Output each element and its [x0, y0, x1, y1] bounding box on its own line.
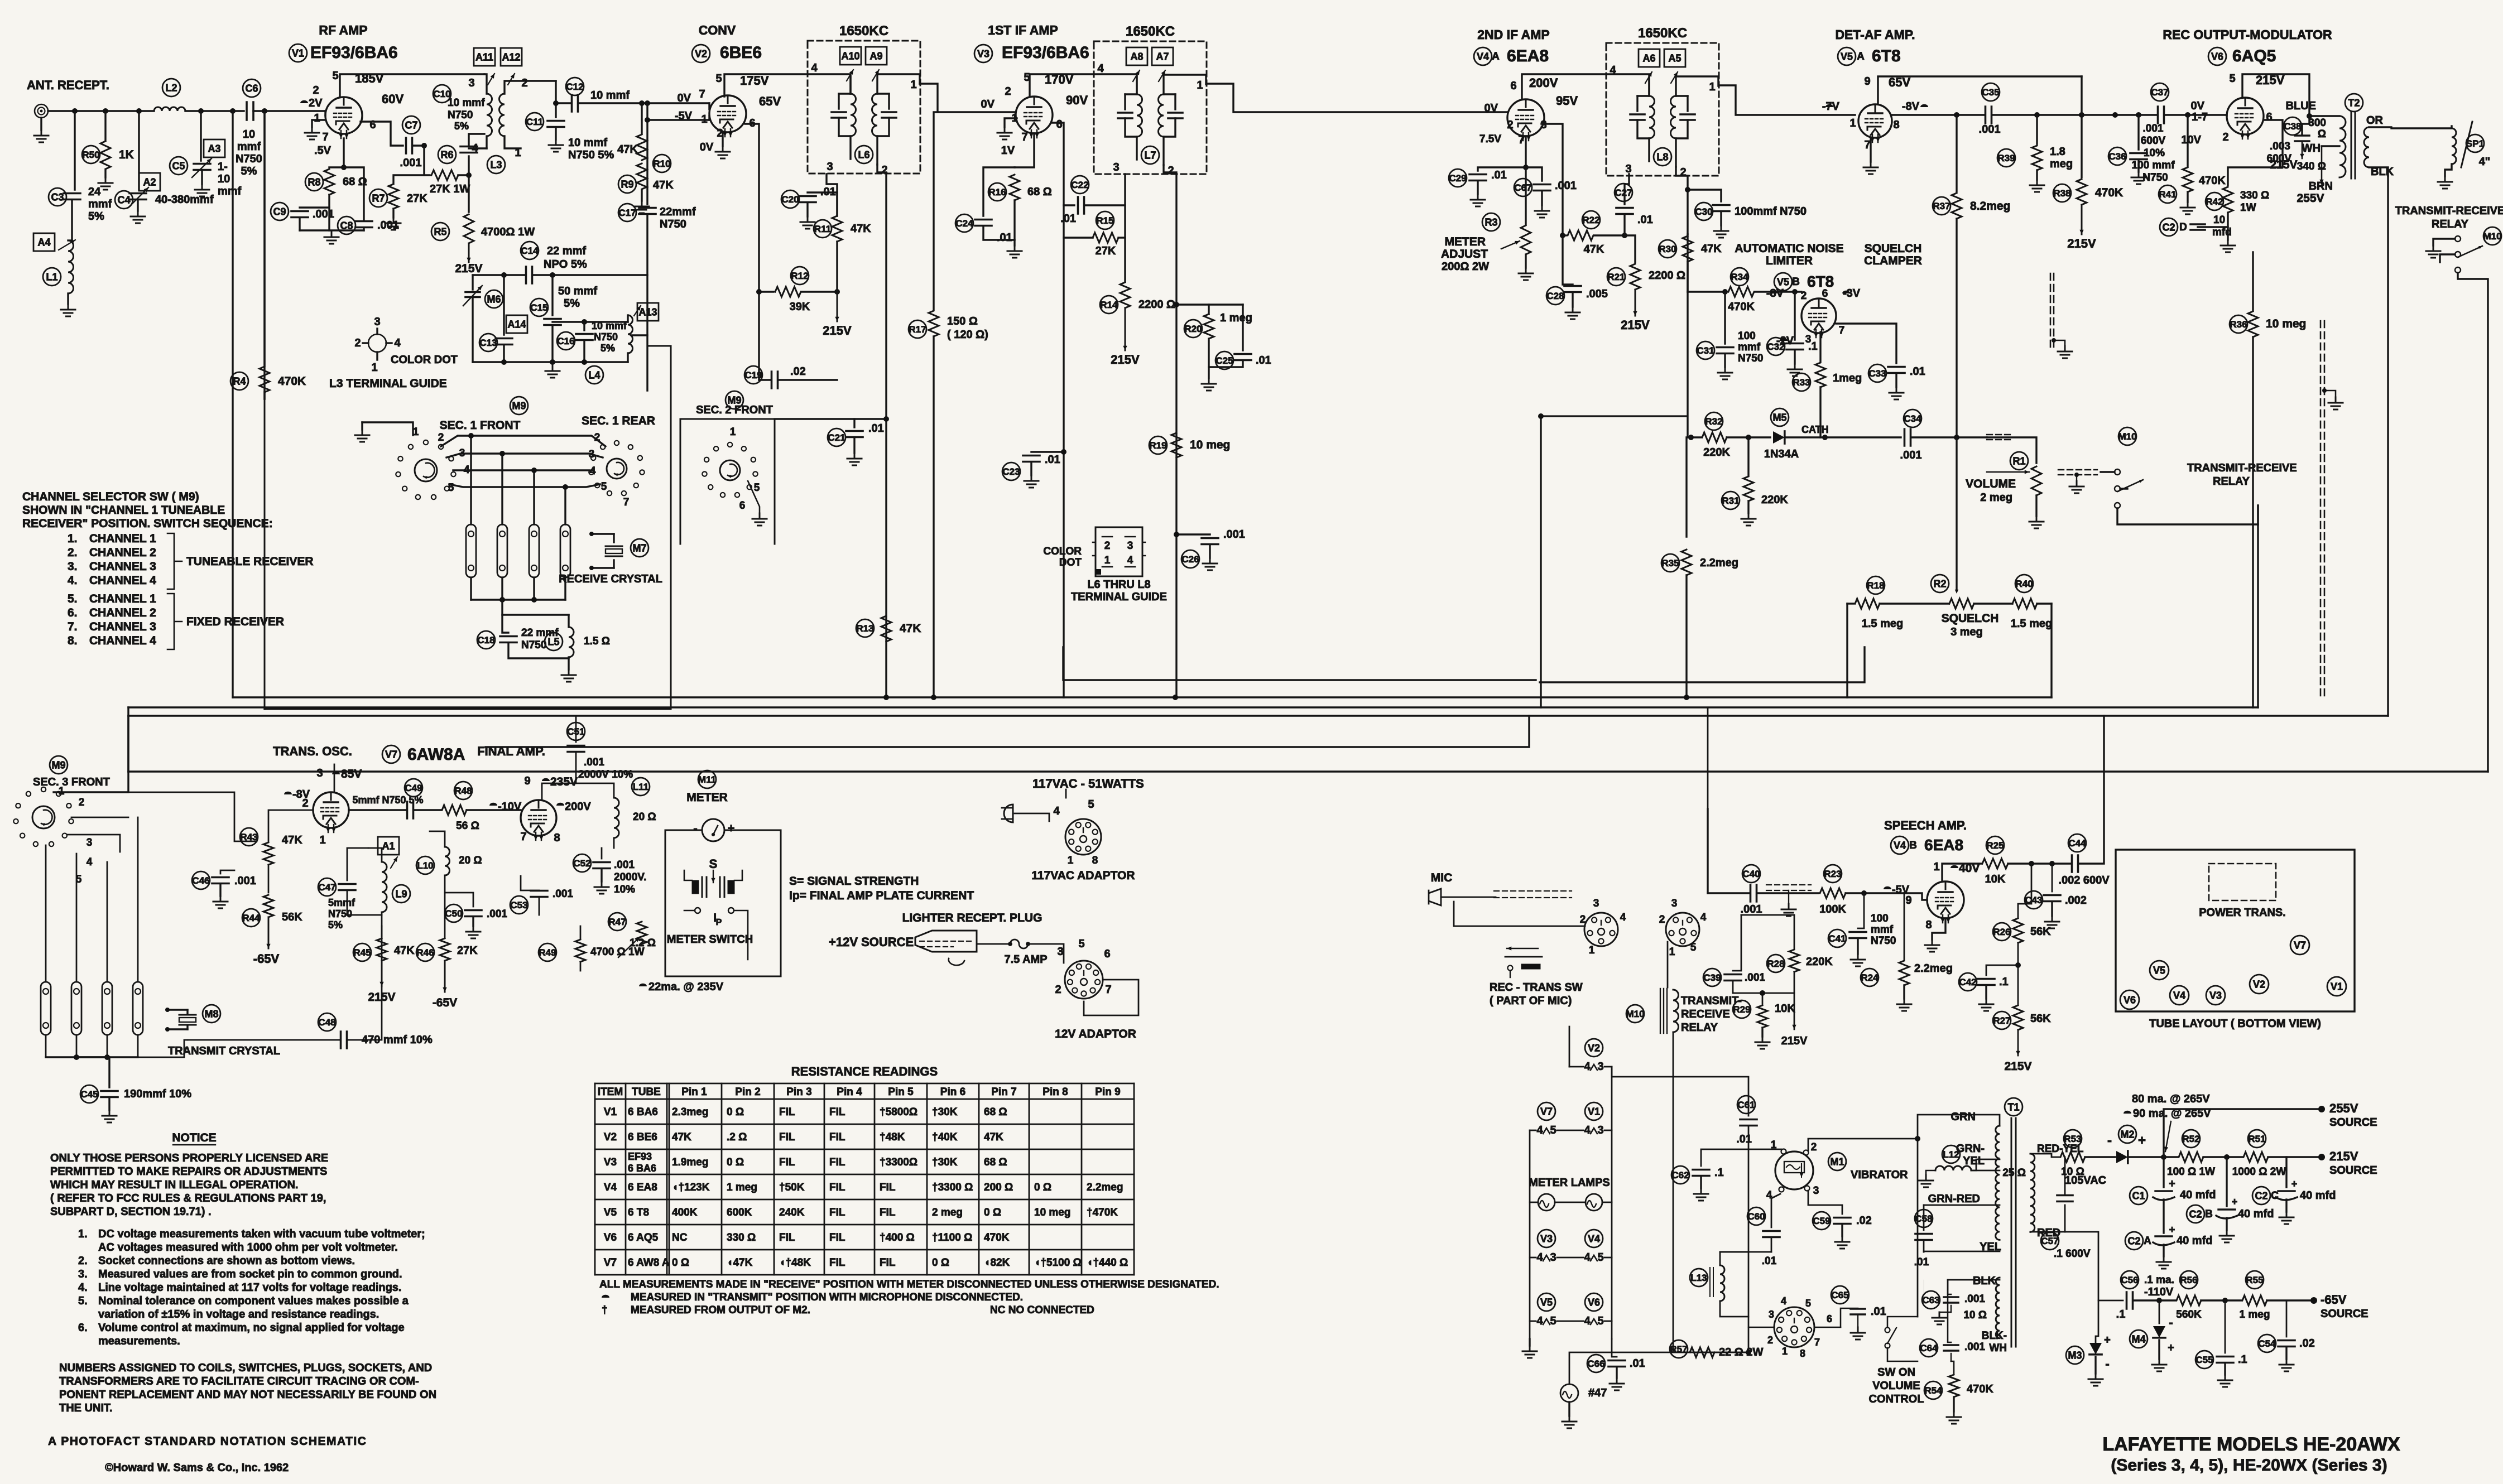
resistor R13: [881, 616, 891, 642]
svg-text:OR: OR: [2366, 114, 2384, 127]
ground (shield 2): [2324, 391, 2336, 397]
svg-text:C37: C37: [2151, 87, 2168, 98]
svg-text:2: 2: [2222, 131, 2228, 143]
svg-text:MIC: MIC: [1431, 871, 1453, 884]
svg-text:4: 4: [1584, 1061, 1591, 1073]
rectifier M3: [2096, 1300, 2098, 1343]
svg-text:R49: R49: [539, 947, 556, 958]
svg-text:DOT: DOT: [1059, 557, 1082, 568]
svg-text:4700Ω 1W: 4700Ω 1W: [481, 226, 535, 238]
sub box: [680, 419, 775, 544]
coil L12: [1935, 1166, 1971, 1170]
svg-text:2: 2: [521, 77, 527, 89]
svg-text:.01: .01: [1491, 169, 1507, 181]
svg-text:C21: C21: [828, 432, 845, 443]
svg-text:6.: 6.: [78, 1322, 88, 1334]
svg-text:560K: 560K: [2176, 1309, 2202, 1321]
svg-text:470K: 470K: [2199, 175, 2226, 187]
svg-text:ITEM: ITEM: [598, 1086, 623, 1098]
svg-text:235V: 235V: [550, 775, 578, 788]
svg-text:2000V 10%: 2000V 10%: [578, 769, 633, 780]
svg-text:117VAC - 51WATTS: 117VAC - 51WATTS: [1032, 777, 1144, 791]
svg-text:2: 2: [1168, 165, 1174, 177]
svg-text:85V: 85V: [341, 768, 362, 780]
svg-text:+: +: [2169, 1178, 2175, 1190]
capacitor (sec) IF2: [1164, 93, 1175, 95]
svg-text:1: 1: [1589, 945, 1595, 956]
svg-text:V5: V5: [1841, 51, 1853, 62]
svg-text:FIL: FIL: [880, 1207, 896, 1218]
ground (relay shield): [2076, 475, 2077, 481]
shield cap (volume): [1987, 434, 2014, 435]
svg-text:1.5 meg: 1.5 meg: [1862, 618, 1903, 630]
svg-text:4: 4: [1536, 1315, 1543, 1327]
svg-text:LAFAYETTE MODELS HE-20AWX: LAFAYETTE MODELS HE-20AWX: [2102, 1434, 2400, 1455]
wire IF1 pin3 to R11: [827, 174, 837, 216]
svg-text:FIXED RECEIVER: FIXED RECEIVER: [186, 615, 284, 628]
L6-L8 terminal guide: [1096, 527, 1142, 576]
tube V6 6AQ5: [2227, 98, 2264, 134]
svg-text:C16: C16: [557, 336, 574, 346]
svg-text:215V: 215V: [2004, 1060, 2031, 1073]
svg-text:R9: R9: [621, 179, 633, 190]
svg-text:†30K: †30K: [932, 1157, 958, 1168]
svg-text:150 Ω: 150 Ω: [947, 315, 978, 327]
wire vib socket bus: [1748, 1149, 1750, 1352]
svg-text:mfd: mfd: [2212, 227, 2232, 238]
svg-text:TUNEABLE RECEIVER: TUNEABLE RECEIVER: [186, 555, 314, 568]
IF transformer IF1 (1650KC): [808, 41, 920, 174]
svg-text:N750: N750: [1871, 935, 1896, 947]
svg-text:.01: .01: [997, 232, 1012, 244]
ground (V4B): [1932, 918, 1945, 939]
svg-text:1: 1: [1849, 117, 1856, 129]
svg-text:C31: C31: [1697, 345, 1714, 356]
svg-text:D: D: [2179, 221, 2187, 233]
svg-text:C50: C50: [445, 908, 462, 919]
svg-text:N750: N750: [1738, 353, 1763, 364]
svg-text:◖82K: ◖82K: [984, 1257, 1010, 1269]
svg-text:5: 5: [754, 482, 760, 494]
svg-text:1: 1: [730, 426, 736, 438]
svg-text:2 meg: 2 meg: [932, 1207, 963, 1218]
svg-text:C40: C40: [1742, 869, 1760, 879]
svg-text:SW ON: SW ON: [1877, 1366, 1915, 1379]
svg-text:ONLY THOSE PERSONS PROPERLY LI: ONLY THOSE PERSONS PROPERLY LICENSED ARE: [50, 1152, 328, 1164]
svg-text:RESISTANCE READINGS: RESISTANCE READINGS: [791, 1064, 938, 1078]
capacitor C29: [1478, 167, 1526, 171]
wire IF2 output: [1207, 84, 1487, 112]
svg-text:1.8: 1.8: [2050, 146, 2065, 158]
svg-text:ALL MEASUREMENTS MADE IN "RECE: ALL MEASUREMENTS MADE IN "RECEIVE" POSIT…: [599, 1279, 1219, 1290]
svg-text:47K: 47K: [672, 1131, 691, 1143]
ground (speaker): [2445, 164, 2452, 176]
wire crystals drop 4: [564, 487, 566, 524]
tube V5A label: [1838, 47, 1856, 65]
svg-text:10%: 10%: [614, 884, 635, 895]
svg-text:27K: 27K: [1096, 245, 1116, 257]
wire V7B plate: [542, 783, 614, 800]
svg-text:.01: .01: [1736, 1133, 1752, 1145]
crystal socket slot T3: [102, 982, 112, 1035]
svg-text:R45: R45: [353, 947, 371, 958]
wire V2 plate: [724, 74, 851, 97]
switch M9 sec2 label: [726, 391, 743, 409]
svg-text:2.2meg: 2.2meg: [1914, 962, 1953, 975]
capacitor C67: [1526, 167, 1542, 181]
svg-text:100K: 100K: [1819, 903, 1846, 916]
svg-text:.01: .01: [1871, 1305, 1886, 1318]
svg-text:470 mmf 10%: 470 mmf 10%: [362, 1034, 433, 1046]
svg-text:4: 4: [1584, 1124, 1591, 1136]
svg-text:4: 4: [1536, 1251, 1543, 1264]
IF transformer L3: [488, 74, 494, 85]
svg-text:A2: A2: [143, 177, 156, 188]
svg-text:RELAY: RELAY: [2213, 475, 2250, 488]
tube heater V1: [1585, 1102, 1603, 1120]
tube heater V4: [1585, 1230, 1603, 1247]
svg-text:TUBE LAYOUT ( BOTTOM VIEW): TUBE LAYOUT ( BOTTOM VIEW): [2149, 1018, 2321, 1030]
tube layout box: [2116, 850, 2355, 1011]
svg-text:R17: R17: [909, 324, 926, 335]
svg-text:10 mmf: 10 mmf: [592, 320, 627, 331]
svg-text:V6: V6: [2124, 994, 2136, 1005]
svg-text:.005: .005: [1586, 288, 1608, 300]
svg-text:TRANS. OSC.: TRANS. OSC.: [273, 744, 352, 758]
capacitor C25: [1242, 305, 1243, 350]
capacitor C61: [1612, 1077, 1748, 1116]
svg-text:FIL: FIL: [829, 1207, 845, 1218]
svg-text:4: 4: [1097, 62, 1104, 75]
svg-text:A3: A3: [208, 143, 220, 155]
capacitor C6: [247, 102, 253, 120]
svg-text:R22: R22: [1582, 215, 1599, 225]
speaker SP1: [2452, 128, 2456, 164]
wire receiver enclosure: [265, 346, 671, 709]
svg-text:.001: .001: [1964, 1293, 1985, 1305]
svg-text:68 Ω: 68 Ω: [984, 1157, 1007, 1168]
switch SW on volume: [1885, 1328, 1890, 1333]
svg-text:8: 8: [554, 832, 560, 844]
svg-text:3: 3: [1057, 946, 1063, 958]
svg-text:330 Ω: 330 Ω: [2240, 190, 2269, 201]
capacitor C9: [300, 206, 329, 208]
svg-text:C14: C14: [521, 245, 539, 256]
mic connector P2: [1666, 913, 1699, 946]
svg-text:56K: 56K: [2030, 1013, 2051, 1025]
svg-text:CHANNEL 2: CHANNEL 2: [89, 546, 156, 559]
svg-text:.1 ma.: .1 ma.: [2144, 1274, 2174, 1286]
resistor R8: [329, 166, 344, 168]
svg-text:( PART OF MIC): ( PART OF MIC): [1490, 995, 1572, 1007]
capacitor (sec) IF1: [877, 93, 889, 94]
svg-text:C56: C56: [2121, 1275, 2138, 1285]
svg-text:C: C: [2271, 1190, 2279, 1202]
svg-text:5mmf N750 5%: 5mmf N750 5%: [352, 794, 423, 806]
coil L10: [445, 847, 450, 875]
svg-text:LIGHTER RECEPT. PLUG: LIGHTER RECEPT. PLUG: [902, 912, 1042, 924]
svg-text:C1: C1: [2132, 1190, 2145, 1201]
svg-text:9: 9: [1864, 75, 1870, 88]
svg-text:2.3meg: 2.3meg: [672, 1106, 708, 1118]
svg-text:7.5 AMP: 7.5 AMP: [1004, 953, 1047, 966]
wire V5A plate: [1878, 76, 2082, 104]
svg-text:100 mmf: 100 mmf: [2131, 160, 2175, 171]
svg-text:T2: T2: [2348, 97, 2360, 108]
svg-text:A1: A1: [382, 841, 395, 852]
crystal socket slot 2: [497, 524, 507, 577]
svg-text:1meg: 1meg: [1833, 372, 1862, 384]
svg-text:3: 3: [1805, 334, 1812, 345]
svg-text:.003: .003: [2270, 141, 2290, 152]
capacitor C35: [1986, 107, 1992, 123]
svg-text:10: 10: [2213, 214, 2225, 226]
svg-text:C64: C64: [1920, 1343, 1938, 1353]
wire V3 screen: [1051, 123, 1064, 205]
svg-text:12V ADAPTOR: 12V ADAPTOR: [1055, 1028, 1136, 1040]
wire relay to ground: [2433, 239, 2455, 245]
svg-text:V6: V6: [1588, 1297, 1600, 1308]
svg-text:0V: 0V: [678, 92, 691, 104]
svg-text:6: 6: [1104, 948, 1110, 960]
svg-text:mmf: mmf: [1871, 924, 1894, 936]
IF transformer IF3 (1650KC): [1606, 43, 1719, 176]
wire bus D: [486, 716, 1529, 747]
svg-text:CONTROL: CONTROL: [1869, 1393, 1924, 1405]
svg-text:10 meg: 10 meg: [1034, 1207, 1070, 1218]
wire mid enclosure bottom 1: [1063, 647, 1536, 680]
svg-text:10K: 10K: [1985, 873, 2006, 885]
svg-text:A: A: [1492, 51, 1500, 62]
resistor R15: [1064, 205, 1093, 238]
svg-text:V5: V5: [1777, 276, 1789, 287]
capacitor C11: [555, 81, 556, 117]
svg-text:1: 1: [413, 426, 419, 438]
svg-text:1.: 1.: [78, 1228, 88, 1240]
svg-text:6 BA6: 6 BA6: [628, 1106, 658, 1118]
svg-text:6EA8: 6EA8: [1924, 836, 1963, 854]
capacitor C20: [836, 192, 838, 216]
svg-text:7: 7: [322, 131, 328, 143]
svg-text:TRANSMIT-RECEIVE: TRANSMIT-RECEIVE: [2187, 462, 2297, 474]
svg-text:C7: C7: [405, 119, 417, 131]
capacitor C23: [1031, 451, 1064, 452]
svg-text:RELAY: RELAY: [2432, 218, 2469, 230]
svg-text:R31: R31: [1722, 495, 1739, 506]
svg-text:Pin 2: Pin 2: [735, 1086, 760, 1098]
resistor R4: [263, 111, 265, 365]
svg-text:90V: 90V: [1066, 93, 1088, 107]
svg-text:V4: V4: [1588, 1233, 1600, 1244]
wire tank bottom: [473, 361, 628, 363]
capacitor C7: [406, 138, 412, 153]
svg-text:V4: V4: [604, 1182, 617, 1193]
svg-text:M9: M9: [51, 759, 65, 770]
svg-text:3.: 3.: [68, 560, 78, 573]
svg-text:.01: .01: [1630, 1357, 1645, 1370]
svg-text:3: 3: [827, 161, 833, 173]
capacitor (prim) IF2: [1125, 93, 1137, 95]
wire T2 tap: [2322, 145, 2339, 147]
svg-text:255V: 255V: [2329, 1101, 2358, 1115]
svg-text:.001: .001: [400, 157, 422, 169]
wire lighter to fuse: [977, 943, 1010, 945]
svg-text:C55: C55: [2195, 1355, 2213, 1365]
svg-text:C53: C53: [510, 900, 527, 910]
svg-text:FIL: FIL: [779, 1131, 795, 1143]
svg-text:C29: C29: [1449, 173, 1466, 184]
receive crystal M7: [592, 533, 614, 534]
tube layout V3: [2206, 986, 2225, 1005]
wire T1 BLK: [1948, 1279, 2000, 1281]
svg-text:V2: V2: [2253, 979, 2265, 990]
svg-text:R15: R15: [1096, 215, 1113, 226]
svg-text:7: 7: [520, 831, 526, 843]
svg-text:10: 10: [243, 128, 255, 141]
svg-text:M8: M8: [204, 1008, 218, 1019]
wire L3 pin4 return: [469, 147, 487, 149]
svg-text:WH: WH: [2302, 142, 2321, 155]
svg-text:470K: 470K: [1967, 1383, 1993, 1395]
svg-text:4: 4: [1781, 1295, 1786, 1307]
svg-text:470K: 470K: [2095, 186, 2123, 199]
svg-text:S= SIGNAL STRENGTH: S= SIGNAL STRENGTH: [789, 875, 919, 888]
svg-text:C59: C59: [1813, 1216, 1830, 1226]
svg-text:0 Ω: 0 Ω: [672, 1257, 689, 1269]
capacitor (prim) IF3: [1637, 95, 1649, 97]
ground (V2 cathode): [722, 132, 723, 146]
svg-text:R52: R52: [2182, 1134, 2199, 1144]
coil L4 (A13): [637, 303, 659, 321]
svg-text:R26: R26: [1993, 927, 2010, 937]
svg-text:8: 8: [1800, 1348, 1805, 1359]
svg-text:300: 300: [2308, 117, 2326, 129]
IF transformer IF2 (1650KC): [1094, 41, 1207, 174]
coil label L6: [855, 146, 873, 163]
svg-text:-65V: -65V: [253, 952, 280, 966]
svg-text:20 Ω: 20 Ω: [459, 855, 482, 866]
svg-text:.001: .001: [1900, 449, 1922, 461]
tube V5B label: [1774, 273, 1792, 291]
wire AVC bus: [233, 696, 2052, 698]
svg-text:5: 5: [1550, 1315, 1556, 1327]
svg-text:4700 Ω 1W: 4700 Ω 1W: [590, 946, 645, 958]
svg-text:C19: C19: [744, 370, 762, 380]
svg-text:L6: L6: [858, 149, 869, 160]
svg-text:A4: A4: [37, 237, 50, 248]
svg-text:.02: .02: [2299, 1337, 2315, 1350]
svg-text:R24: R24: [1861, 972, 1879, 983]
svg-text:R20: R20: [1184, 324, 1202, 334]
wire V1 grid: [324, 111, 326, 115]
capacitor C52: [601, 848, 603, 859]
resistor R46: [444, 893, 446, 937]
svg-text:6: 6: [1827, 1313, 1832, 1324]
ground (V5A cathode): [1870, 138, 1871, 162]
svg-text:N750: N750: [2142, 172, 2168, 184]
svg-text:+: +: [2138, 1133, 2146, 1148]
svg-text:10V: 10V: [2181, 134, 2201, 146]
svg-text:4: 4: [87, 856, 93, 868]
ground (cathode network): [300, 229, 364, 231]
svg-text:215V: 215V: [455, 262, 482, 275]
svg-text:600V: 600V: [2141, 135, 2166, 147]
wire detector line left: [1541, 415, 1687, 417]
wire receiver enclosure left: [232, 111, 233, 697]
resistor R22: [1563, 234, 1566, 236]
svg-text:M2: M2: [2120, 1129, 2134, 1140]
svg-text:CATH: CATH: [1801, 424, 1829, 435]
wire vib pin2: [1808, 1139, 1918, 1150]
svg-text:N750: N750: [448, 109, 473, 121]
svg-text:2: 2: [1005, 85, 1011, 98]
svg-text:5: 5: [601, 481, 607, 493]
svg-text:L1: L1: [46, 271, 57, 282]
capacitor C50: [445, 893, 473, 907]
svg-text:C38: C38: [2284, 121, 2301, 132]
trimmer A12: [501, 48, 522, 66]
wire V4B grid: [1904, 893, 1927, 900]
svg-text:5.: 5.: [78, 1295, 88, 1307]
svg-text:C2: C2: [2255, 1190, 2267, 1201]
tube layout V7: [2290, 936, 2309, 955]
wire V1 cathode: [343, 138, 344, 167]
tube heater V3: [1538, 1230, 1555, 1247]
wire mid vertical: [1540, 416, 1541, 707]
resistor R32: [1702, 432, 1727, 442]
svg-text:R36: R36: [2230, 319, 2247, 330]
svg-text:R11: R11: [814, 224, 831, 234]
svg-text:1650KC: 1650KC: [1638, 26, 1687, 41]
svg-text:215V: 215V: [2067, 237, 2096, 250]
svg-text:0V: 0V: [700, 141, 714, 153]
capacitor C5 (A3): [200, 111, 201, 161]
svg-text:.001: .001: [1555, 180, 1577, 192]
svg-text:CHANNEL 3: CHANNEL 3: [89, 620, 156, 633]
resistor R26: [2018, 864, 2031, 917]
svg-text:N750: N750: [236, 153, 262, 165]
svg-text:V6: V6: [2211, 51, 2223, 62]
svg-text:2: 2: [1811, 1141, 1817, 1153]
svg-text:R56: R56: [2180, 1275, 2197, 1285]
capacitor C60: [1771, 1194, 1780, 1227]
tube layout V5: [2150, 961, 2169, 980]
resistor R27: [2013, 1005, 2023, 1030]
svg-text:A9: A9: [869, 51, 882, 62]
svg-text:FIL: FIL: [829, 1157, 845, 1168]
wire crystals drop 2: [501, 454, 503, 524]
capacitor C16: [583, 322, 585, 330]
svg-text:-5V: -5V: [675, 110, 693, 122]
capacitor C53: [521, 876, 539, 890]
coil L2: [154, 107, 185, 111]
svg-text:215V: 215V: [823, 324, 852, 338]
resistor R45: [381, 926, 383, 937]
resistor R14: [1124, 174, 1126, 282]
svg-text:R1: R1: [2012, 455, 2025, 466]
svg-text:1W: 1W: [2240, 202, 2256, 214]
svg-text:2: 2: [313, 84, 319, 97]
svg-text:5%: 5%: [454, 121, 469, 132]
svg-text:METER: METER: [686, 791, 728, 804]
svg-text:S: S: [709, 857, 718, 871]
svg-text:24: 24: [88, 186, 101, 198]
svg-text:Nominal tolerance on component: Nominal tolerance on component values ma…: [98, 1295, 409, 1307]
svg-text:L9: L9: [395, 888, 407, 899]
svg-text:-: -: [2107, 1133, 2112, 1148]
svg-text:TERMINAL GUIDE: TERMINAL GUIDE: [1071, 591, 1167, 603]
svg-text:.01: .01: [868, 422, 884, 435]
